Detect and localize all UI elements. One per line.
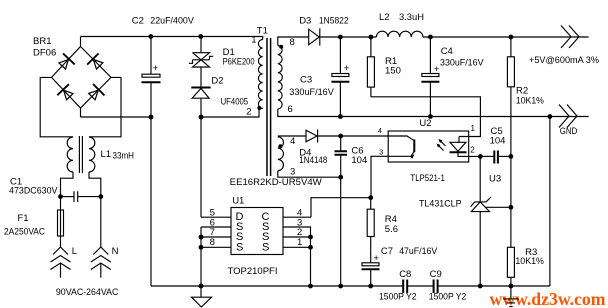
GND arrow: [559, 105, 577, 128]
transformer T1 aux winding: [278, 137, 284, 171]
svg-text:4: 4: [290, 136, 295, 147]
opto light arrows: [437, 139, 446, 151]
svg-text:+: +: [344, 63, 350, 74]
svg-text:L1: L1: [101, 149, 112, 160]
wire bridge top stub: [80, 37, 82, 47]
node TL431 anode bottom: [478, 284, 483, 289]
capacitor C3: [331, 37, 349, 117]
svg-text:GND: GND: [560, 126, 578, 137]
svg-text:3: 3: [290, 167, 295, 178]
wire U1 C pin path: [311, 198, 371, 218]
resistor R3: [507, 247, 514, 286]
inductor L2: [376, 31, 423, 37]
node C6 bottom: [338, 175, 343, 180]
svg-text:104: 104: [490, 136, 506, 147]
svg-text:1: 1: [297, 237, 302, 248]
svg-text:+: +: [434, 64, 440, 75]
capacitor C4: [421, 37, 439, 117]
node C4 top: [428, 35, 433, 40]
bridge diode top-right: [87, 53, 105, 71]
node T1 pin2 phase dot: [257, 106, 261, 110]
svg-text:47uF/16V: 47uF/16V: [399, 246, 438, 257]
node opto cathode / C5 left: [478, 154, 483, 159]
bridge diode top-left: [56, 53, 74, 71]
node R1 top: [369, 35, 374, 40]
svg-text:5.6: 5.6: [385, 224, 398, 235]
node D2 bottom / drain: [199, 115, 204, 120]
node pin8: [199, 245, 204, 250]
U1 TOP210PFI box: [231, 208, 283, 255]
node pin1: [308, 245, 313, 250]
node C5 right / R2-R3: [509, 154, 514, 159]
svg-text:C9: C9: [430, 269, 442, 280]
svg-text:1500P Y2: 1500P Y2: [379, 292, 417, 303]
svg-text:1: 1: [251, 35, 256, 46]
svg-text:+5V@600mA 3%: +5V@600mA 3%: [529, 55, 600, 66]
transformer T1 core: [267, 38, 271, 176]
capacitor C5: [480, 151, 511, 164]
node U1 right bus bottom: [308, 284, 313, 289]
node C3 bottom: [338, 114, 343, 119]
choke L1 core: [79, 136, 82, 173]
svg-text:8: 8: [290, 37, 295, 48]
wire bridge bottom stub: [80, 108, 82, 117]
svg-text:U1: U1: [232, 196, 244, 207]
svg-text:BR1: BR1: [33, 36, 51, 47]
svg-text:2A250VAC: 2A250VAC: [4, 227, 45, 238]
capacitor C1: [61, 191, 101, 202]
node C1 left: [58, 194, 63, 199]
node R2 top: [509, 35, 514, 40]
terminal L: [51, 247, 71, 278]
node R3 bottom: [509, 284, 514, 289]
svg-text:150: 150: [385, 66, 401, 77]
wire C6 node down to bottom rail: [340, 177, 342, 286]
svg-text:+: +: [373, 253, 379, 264]
+5V output arrow: [561, 26, 579, 49]
diode D2 UF4005: [191, 88, 210, 118]
svg-text:22uF/400V: 22uF/400V: [150, 16, 194, 27]
bridge diode bottom-right: [86, 84, 104, 102]
svg-text:S: S: [262, 242, 269, 254]
resistor R2: [507, 37, 514, 156]
svg-text:3.3uH: 3.3uH: [399, 12, 424, 23]
svg-text:U2: U2: [419, 118, 431, 129]
wire bridge bottom to C2: [81, 116, 152, 118]
bridge rectifier BR1 diamond edges: [52, 47, 112, 109]
svg-text:3: 3: [379, 150, 383, 157]
svg-text:C7: C7: [381, 246, 393, 257]
svg-text:EE16R2KD-UR5V4W: EE16R2KD-UR5V4W: [230, 177, 322, 188]
svg-text:1500P Y2: 1500P Y2: [429, 292, 467, 303]
svg-text:TLP521-1: TLP521-1: [410, 173, 445, 184]
node gnd right: [548, 114, 553, 119]
svg-text:8: 8: [210, 237, 215, 248]
secondary phase dot: [279, 45, 283, 49]
choke L1 left winding: [67, 137, 73, 172]
node U1 left bus bottom: [199, 284, 204, 289]
svg-text:T1: T1: [257, 26, 268, 37]
wire aux pin3 to C6 bottom: [278, 171, 341, 178]
wire output top rail: [320, 36, 589, 38]
node opto emitter / R4 top / C control: [368, 195, 373, 200]
svg-text:10K1%: 10K1%: [515, 256, 544, 267]
bottom ground rail: [151, 285, 550, 287]
U1 right source bus: [310, 227, 313, 286]
U1 pin lines left: [201, 217, 231, 247]
svg-text:2: 2: [470, 146, 475, 155]
node C3 top: [338, 35, 343, 40]
U1 pin letters D C S: [236, 211, 270, 254]
node C1 right: [98, 194, 103, 199]
svg-text:C4: C4: [441, 46, 453, 57]
earth ground below R3: [503, 286, 519, 307]
svg-text:F1: F1: [18, 213, 29, 224]
diode D4 1N4148: [278, 130, 341, 143]
node C2 top: [148, 34, 153, 39]
svg-text:4: 4: [378, 128, 382, 135]
wire drain to T1 pin2: [201, 108, 263, 117]
node pin2: [308, 235, 313, 240]
wire primary top rail: [81, 37, 263, 40]
wire choke right to C1: [89, 172, 101, 197]
svg-text:1N4148: 1N4148: [299, 155, 327, 166]
svg-text:6: 6: [288, 104, 293, 115]
aux phase dot: [278, 144, 282, 148]
wire primary ground return (C2 down to bottom rail): [150, 117, 152, 286]
node C4 bottom: [428, 114, 433, 119]
bridge diode bottom-left: [57, 84, 75, 102]
svg-text:N: N: [112, 246, 119, 257]
wire drain vertical to U1 pin5: [200, 117, 202, 217]
U1 pin lines right: [283, 217, 311, 247]
optocoupler U2 box: [388, 131, 469, 162]
fuse F1: [58, 197, 64, 247]
svg-text:1N5822: 1N5822: [319, 16, 349, 27]
node D4 cathode / C6 top: [338, 134, 343, 139]
svg-text:33mH: 33mH: [113, 151, 135, 162]
capacitor C6: [335, 136, 348, 177]
resistor R4: [367, 198, 374, 263]
ground symbol primary: [192, 286, 212, 307]
svg-text:330uF/16V: 330uF/16V: [289, 87, 334, 98]
svg-text:104: 104: [351, 155, 367, 166]
svg-text:90VAC-264VAC: 90VAC-264VAC: [56, 287, 119, 298]
node D1 top: [198, 34, 203, 39]
svg-text:473DC630V: 473DC630V: [9, 186, 58, 197]
choke L1 right winding: [89, 137, 95, 172]
svg-text:TL431CLP: TL431CLP: [419, 199, 462, 210]
transformer T1 primary winding: [258, 40, 262, 109]
wire R2-R3 link: [510, 156, 512, 247]
svg-text:C8: C8: [399, 269, 411, 280]
svg-text:D3: D3: [299, 16, 311, 27]
node C7 bottom: [368, 284, 373, 289]
svg-text:TOP210PFI: TOP210PFI: [228, 266, 278, 277]
wire choke left to C1: [61, 172, 74, 197]
capacitor C2: [142, 37, 161, 118]
svg-text:10K1%: 10K1%: [516, 96, 544, 107]
transformer T1 secondary winding: [278, 46, 283, 110]
wire secondary ground rail: [278, 109, 589, 117]
capacitor C8: [403, 280, 407, 294]
wire right vertical to bottom rail: [549, 117, 551, 287]
svg-text:1: 1: [471, 124, 476, 133]
wire bridge right to choke: [89, 77, 121, 136]
node C6 branch bottom: [338, 284, 343, 289]
node C2 bottom: [149, 115, 154, 120]
svg-text:C3: C3: [300, 75, 312, 86]
svg-text:U3: U3: [489, 174, 501, 185]
U1 left source bus: [200, 227, 202, 286]
svg-text:L2: L2: [379, 12, 390, 23]
svg-text:DF06: DF06: [33, 48, 56, 59]
terminal N: [91, 197, 111, 278]
svg-text:P6KE200: P6KE200: [223, 57, 255, 68]
wire T1 pin8 stub: [278, 37, 309, 46]
svg-text:D2: D2: [211, 76, 223, 87]
svg-text:C2: C2: [132, 16, 144, 27]
svg-text:+: +: [153, 63, 159, 74]
wire bridge left to choke: [40, 77, 73, 136]
node pin7: [199, 235, 204, 240]
capacitor C9: [434, 280, 438, 294]
opto LED: [450, 137, 481, 157]
svg-text:330uF/16V: 330uF/16V: [440, 58, 484, 69]
capacitor C7: [362, 253, 380, 286]
diode D3 1N5822: [309, 28, 320, 45]
svg-text:UF4005: UF4005: [221, 97, 249, 108]
TVS D1 P6KE200: [189, 37, 213, 88]
opto transistor: [341, 136, 415, 198]
TL431 U3: [471, 156, 511, 286]
svg-text:L: L: [72, 246, 77, 257]
svg-text:2: 2: [246, 107, 251, 118]
node TL431 ref: [509, 205, 514, 210]
resistor R1: [367, 37, 374, 97]
svg-text:S: S: [236, 242, 243, 254]
wire R1 to opto LED: [371, 97, 481, 137]
